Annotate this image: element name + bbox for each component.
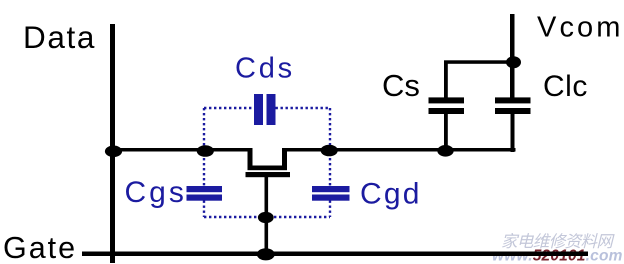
wire Cs-to-Vcom [444, 60, 512, 64]
svg-text:Cgs: Cgs [125, 176, 187, 209]
junction dot box-left [197, 145, 214, 157]
capacitor Clc [495, 97, 531, 152]
junction dot gate-node [258, 212, 274, 223]
dotted box top edge [204, 107, 330, 109]
data line [110, 24, 115, 263]
capacitor Cgd [312, 186, 350, 201]
junction dot gate-line [257, 248, 275, 260]
svg-text:Cds: Cds [235, 53, 295, 85]
Vcom line [510, 14, 515, 98]
wire pixel-row left [112, 148, 250, 152]
capacitor Cds [254, 94, 276, 125]
junction dot box-right [321, 145, 338, 157]
dotted box left edge [203, 108, 205, 217]
svg-text:Data: Data [23, 19, 96, 55]
svg-text:Cgd: Cgd [360, 178, 422, 211]
junction dot Vcom [506, 56, 521, 68]
dotted box right edge [329, 108, 331, 217]
svg-text:Cs: Cs [382, 68, 420, 103]
junction dot Cs-bottom [437, 145, 453, 157]
wire pixel-row right [285, 148, 516, 152]
capacitor Cs [429, 62, 465, 150]
svg-text:Vcom: Vcom [537, 12, 624, 44]
svg-text:Gate: Gate [3, 231, 77, 264]
dotted box bottom edge [204, 216, 330, 218]
transistor TFT [246, 148, 291, 259]
junction dot data-line [105, 146, 122, 158]
svg-text:Clc: Clc [543, 70, 588, 103]
capacitor Cgs [187, 186, 223, 201]
gate line [82, 252, 588, 257]
